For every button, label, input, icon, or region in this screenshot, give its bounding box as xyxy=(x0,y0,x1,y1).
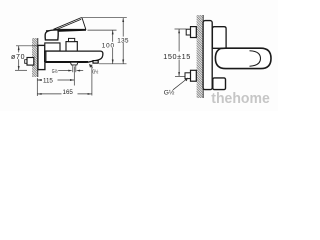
svg-text:thehome: thehome xyxy=(211,90,269,107)
svg-text:ø70: ø70 xyxy=(11,54,25,61)
label 150 +/- 15 xyxy=(163,52,194,62)
label G1/2 right view with bent leader xyxy=(164,78,188,97)
escutcheon flange (ø70) xyxy=(38,45,45,69)
label ø70 xyxy=(11,52,27,60)
outlet extension lines xyxy=(72,65,74,72)
svg-text:G½: G½ xyxy=(52,68,58,75)
lever inner end contour xyxy=(250,51,261,66)
dim 115 xyxy=(37,79,74,81)
label 165 xyxy=(62,89,78,97)
supply elbow behind wall xyxy=(25,58,34,66)
top supply fitting behind wall xyxy=(186,27,196,38)
svg-text:135: 135 xyxy=(117,37,129,44)
dim 100 extension from lever tip xyxy=(88,29,117,31)
dim ø70 extension bottom xyxy=(15,69,27,71)
wall face extension below xyxy=(36,78,38,96)
svg-text:G½: G½ xyxy=(92,69,98,76)
lever blade inner edge xyxy=(56,19,81,30)
lever handle underside heavy line xyxy=(46,30,86,32)
svg-text:150±15: 150±15 xyxy=(163,52,191,61)
label G1/2 spout tip with leader xyxy=(89,64,98,76)
label 115 xyxy=(42,77,58,85)
lever blade xyxy=(54,18,86,30)
dim 150 extension bottom xyxy=(175,75,185,77)
dim ø70 extension top xyxy=(16,45,38,47)
svg-text:115: 115 xyxy=(43,77,53,84)
spout plan view pointing down xyxy=(213,78,226,90)
mixer body block xyxy=(45,43,60,51)
lever handle plan view xyxy=(215,48,271,68)
spout tip extension xyxy=(91,65,93,96)
label 100 xyxy=(101,42,117,50)
label 135 xyxy=(117,37,132,45)
aerator detail at spout tip xyxy=(93,61,98,64)
hand shower outlet under spout xyxy=(70,62,78,65)
wall section left view xyxy=(32,38,38,77)
bottom supply fitting behind wall xyxy=(185,70,196,81)
dim 135 extension from handle top xyxy=(82,17,127,19)
union nut xyxy=(45,51,53,61)
wall flange plate plan view xyxy=(203,21,212,90)
body tower plan view xyxy=(212,27,226,49)
centerline reference at supply axis xyxy=(99,63,127,65)
dim 150 line with arrows xyxy=(178,29,180,76)
handle pivot dome xyxy=(45,30,58,40)
dim 135 line with arrows xyxy=(122,18,124,64)
diverter tower and knob xyxy=(66,38,77,51)
dim 150 extension top xyxy=(175,28,187,30)
spout body side view xyxy=(46,51,103,62)
dim ø70 line with arrows xyxy=(18,46,20,71)
outlet centre extension xyxy=(73,67,75,86)
dim 100 line with arrows xyxy=(112,30,114,64)
svg-text:100: 100 xyxy=(102,43,115,50)
svg-text:165: 165 xyxy=(63,89,74,96)
right side arrow of outlet xyxy=(76,70,80,72)
wall section right view xyxy=(197,15,204,98)
dim 165 xyxy=(37,93,92,95)
label G1/2 left with leader xyxy=(52,68,73,75)
